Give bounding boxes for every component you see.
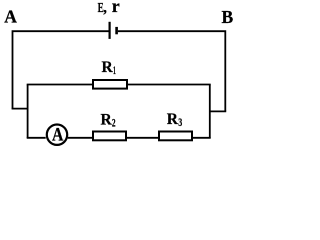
wire top left (node A to battery, down to left jog) xyxy=(13,31,110,108)
ammeter A1 xyxy=(47,125,67,145)
svg-text:R2: R2 xyxy=(101,111,116,129)
wire left inner vertical xyxy=(27,85,29,138)
wire R3 right xyxy=(193,137,211,139)
svg-text:B: B xyxy=(222,7,234,27)
svg-text:R1: R1 xyxy=(102,59,116,77)
svg-text:A: A xyxy=(52,124,64,145)
svg-text:r: r xyxy=(112,0,120,16)
battery E,r plates xyxy=(110,22,117,39)
wire R1 right xyxy=(128,84,211,86)
wire right inner vertical xyxy=(209,85,211,138)
svg-text:A: A xyxy=(4,7,17,27)
wire ammeter to R2 xyxy=(68,137,92,139)
wire bottom left (to ammeter) xyxy=(27,137,46,139)
resistor R1 xyxy=(93,80,127,89)
resistor R3 xyxy=(159,132,192,141)
svg-text:,: , xyxy=(103,0,107,16)
wire R1 left xyxy=(27,84,92,86)
wire right jog xyxy=(210,110,226,112)
svg-text:R3: R3 xyxy=(167,111,182,129)
wire left jog xyxy=(12,108,28,110)
resistor R2 xyxy=(93,132,126,141)
battery value label E, r xyxy=(98,0,120,16)
wire R2 to R3 xyxy=(127,137,158,139)
wire top right (battery to node B, down to right jog) xyxy=(118,31,226,111)
